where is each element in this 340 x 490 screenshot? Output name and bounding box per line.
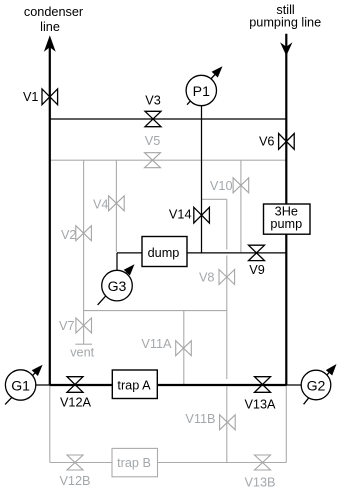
valve V11A (gray)	[141, 337, 191, 356]
svg-text:condenser: condenser	[24, 5, 84, 19]
valve V14	[169, 207, 209, 223]
svg-text:V3: V3	[145, 94, 161, 108]
wire: gray trap B bottom line y=463.5	[50, 462, 286, 464]
gauge G3	[98, 264, 135, 305]
trap B box (gray)	[112, 448, 158, 476]
svg-text:V1: V1	[23, 90, 39, 104]
svg-text:pump: pump	[270, 217, 302, 231]
valve V10 (gray)	[210, 178, 249, 193]
wire: gray left drop to trap B line	[49, 385, 51, 463]
wire: P1 stem / V14 line x=201.5	[201, 104, 203, 253]
valve V6	[259, 134, 294, 150]
wire: gray vertical V8/V11B line x=226.8 upper	[226, 199, 228, 249]
valve V4 (gray)	[93, 196, 124, 212]
wire: gray elbow from V14 stem to V8 line	[202, 198, 227, 200]
trap A box	[112, 370, 157, 399]
valve V5 (gray)	[145, 134, 161, 168]
svg-text:V11A: V11A	[141, 337, 172, 351]
svg-text:V2: V2	[61, 228, 77, 242]
node label: condenser line	[24, 5, 84, 34]
svg-text:V9: V9	[249, 263, 265, 277]
valve V2 (gray)	[61, 226, 91, 242]
valve V12A	[60, 377, 92, 410]
wire: gray header line y=160	[50, 159, 286, 161]
wire: condenser line (thick vertical)	[44, 35, 56, 385]
svg-text:V8: V8	[199, 271, 215, 285]
valve V12B (gray)	[59, 455, 90, 488]
wire: gray right drop to trap B line	[285, 385, 287, 463]
svg-text:V12A: V12A	[60, 396, 92, 410]
svg-text:G2: G2	[307, 377, 326, 393]
wire: dump line y=252.7	[117, 252, 286, 254]
svg-text:G1: G1	[11, 377, 30, 393]
svg-text:V7: V7	[59, 319, 75, 333]
svg-text:V13B: V13B	[244, 476, 275, 490]
valve V13A	[244, 377, 276, 412]
wire: G2 link	[286, 384, 316, 386]
svg-text:V5: V5	[145, 134, 161, 148]
valve V9	[249, 245, 265, 277]
svg-text:V6: V6	[259, 135, 275, 149]
node label: still pumping line	[249, 3, 321, 30]
valve V7 (gray)	[59, 318, 92, 333]
dump box	[142, 237, 187, 267]
wire: gray vertical V2/V7 line x=83.6	[83, 160, 85, 344]
wire: gray vertical V4 line x=116.4	[115, 160, 117, 252]
svg-text:V4: V4	[93, 198, 109, 212]
svg-text:trap A: trap A	[117, 378, 151, 392]
svg-text:pumping line: pumping line	[249, 16, 321, 30]
wire: gray vertical V11A line x=183.8	[183, 311, 185, 384]
svg-text:P1: P1	[193, 83, 210, 99]
valve V3	[145, 94, 161, 127]
wire: bottom main line y=384 (thick)	[50, 384, 286, 386]
wire: black thin line y=118.7	[50, 118, 286, 120]
wire: G3 stem	[116, 253, 118, 271]
svg-text:V11B: V11B	[185, 412, 215, 426]
svg-text:line: line	[40, 20, 60, 34]
valve V13B (gray)	[244, 455, 275, 490]
svg-text:V13A: V13A	[244, 398, 276, 412]
svg-text:V14: V14	[169, 208, 192, 222]
gauge G1	[5, 365, 43, 405]
wire: G1 link	[21, 384, 50, 386]
gauge P1	[186, 66, 222, 106]
wire: gray vertical V8/V11B line x=226.8 lower	[226, 387, 228, 463]
wire: still pumping line (thick vertical)	[280, 34, 292, 385]
wire: gray vertical V10 line x=240.9	[240, 160, 242, 252]
svg-text:vent: vent	[70, 346, 94, 360]
valve V1	[23, 89, 58, 105]
3He pump box	[264, 204, 311, 234]
wire: gray vertical V8/V11B line x=226.8 middle	[226, 256, 228, 380]
wire: gray horizontal line y=310.6	[84, 310, 227, 312]
gauge G2	[301, 364, 336, 404]
valve V11B (gray)	[185, 412, 235, 430]
svg-text:V12B: V12B	[59, 474, 90, 488]
vent outlet bar below V7	[70, 344, 94, 359]
svg-text:trap B: trap B	[117, 456, 151, 470]
svg-text:V10: V10	[210, 179, 233, 193]
valve V8 (gray)	[199, 270, 235, 285]
svg-text:G3: G3	[108, 278, 127, 294]
svg-text:dump: dump	[148, 246, 180, 260]
